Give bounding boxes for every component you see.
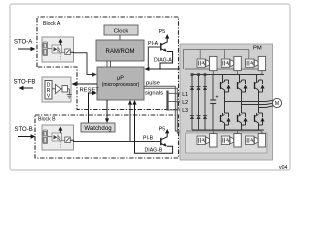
RESET wire to DRV <box>72 82 100 94</box>
input divider B <box>42 130 52 144</box>
wire stage B output <box>70 140 130 141</box>
DC bus capacitor <box>210 75 216 130</box>
motor M <box>272 98 281 107</box>
DRV buffer <box>56 85 62 94</box>
rectifier leg 2 <box>196 75 200 130</box>
PI-A wire <box>148 47 160 69</box>
IGBT upper 1 <box>221 75 231 102</box>
rail pads <box>191 73 207 76</box>
Block A boundary <box>37 17 179 110</box>
optocoupler B <box>52 133 62 141</box>
phase line W <box>259 106 273 108</box>
svg-text:Block A: Block A <box>43 21 61 27</box>
pulldown dashed B <box>59 141 61 148</box>
outer frame <box>10 4 290 170</box>
switch block B <box>62 137 71 143</box>
bottom driver sub-box <box>186 133 268 153</box>
PM block <box>180 44 273 160</box>
P5 arrow B <box>165 129 169 138</box>
mains bar <box>166 91 168 111</box>
supply arrow B <box>58 127 62 133</box>
Block B boundary <box>35 115 179 158</box>
clock box <box>104 25 138 35</box>
input stage A box <box>42 37 74 62</box>
svg-text:STO-B: STO-B <box>15 127 33 133</box>
svg-text:Clock: Clock <box>114 28 129 34</box>
rectifier leg 1 <box>190 75 194 130</box>
top driver 2 <box>221 56 241 74</box>
svg-text:DIAG-B: DIAG-B <box>145 148 163 154</box>
ram to uP bus <box>106 61 108 67</box>
L terminal marks <box>179 92 206 111</box>
svg-text:(microprocessor): (microprocessor) <box>102 82 140 88</box>
top drivers signal bus <box>184 50 249 70</box>
svg-text:L2: L2 <box>182 100 188 106</box>
transistor Q-A <box>161 42 167 52</box>
svg-text:Watchdog: Watchdog <box>84 125 111 132</box>
DIAG-B wire <box>135 103 173 153</box>
input stage B box <box>42 125 74 150</box>
rectifier leg 3 <box>203 75 207 130</box>
STO-A input arrow <box>18 47 36 51</box>
svg-text:RAM/ROM: RAM/ROM <box>106 49 135 55</box>
DIAG-A wire <box>145 52 186 72</box>
svg-text:PM: PM <box>253 46 262 52</box>
input divider A <box>42 42 52 56</box>
DRV driver rect <box>45 81 52 100</box>
RAM/ROM box <box>96 40 144 61</box>
DRV block2 <box>62 86 68 93</box>
pulse signals bus <box>144 86 182 133</box>
bottom driver 3 <box>246 131 266 147</box>
watchdog box <box>81 123 115 132</box>
svg-text:v04: v04 <box>279 165 287 171</box>
STO-FB output arrow <box>19 86 34 90</box>
svg-text:PI-B: PI-B <box>143 136 154 142</box>
svg-text:+: + <box>216 95 219 101</box>
svg-text:P5: P5 <box>159 29 165 35</box>
phase line V <box>242 103 273 104</box>
IGBT upper 2 <box>238 75 248 105</box>
top driver 3 <box>246 56 266 74</box>
uP to watchdog wire <box>105 100 109 123</box>
svg-text:STO-FB: STO-FB <box>14 80 36 86</box>
PI-B wire <box>130 103 160 142</box>
DRV cap + ground <box>52 89 72 98</box>
pulldown dashed A <box>59 53 61 60</box>
L2 line <box>168 100 199 102</box>
svg-text:P5: P5 <box>159 127 165 133</box>
svg-text:signals: signals <box>145 91 163 97</box>
svg-text:L1: L1 <box>182 92 188 98</box>
P5 arrow A <box>165 34 169 43</box>
supply arrow A <box>58 39 62 45</box>
svg-text:pulse: pulse <box>146 81 160 87</box>
IGBT lower 1 <box>221 102 231 131</box>
phase line U <box>225 100 273 101</box>
top driver 1 <box>197 56 217 74</box>
bottom driver 2 <box>221 131 241 147</box>
L3 line <box>168 109 206 111</box>
clock to ram wire <box>119 35 121 40</box>
switch block A <box>62 49 71 55</box>
DRV box <box>42 77 71 102</box>
transistor Q-B <box>161 137 167 147</box>
svg-text:µP: µP <box>117 76 124 82</box>
optocoupler A <box>52 45 62 53</box>
microprocessor box <box>97 67 144 100</box>
svg-text:STO-A: STO-A <box>14 40 32 46</box>
svg-text:L3: L3 <box>182 108 188 114</box>
svg-text:Block B: Block B <box>38 117 56 123</box>
DC top rail <box>192 74 264 76</box>
svg-text:PI-A: PI-A <box>148 41 159 47</box>
STO-B input arrow <box>18 134 36 138</box>
bottom drivers signal bus <box>186 130 262 132</box>
IGBT lower 3 <box>255 108 265 131</box>
top gate driver supply line <box>185 68 264 70</box>
DC bottom rail <box>192 129 264 131</box>
wire stage A output to uP <box>70 52 93 74</box>
watchdog to uP wire <box>89 91 97 123</box>
svg-text:M: M <box>275 101 279 107</box>
IGBT lower 2 <box>238 105 248 131</box>
L labels on PM <box>182 92 188 114</box>
L1 line <box>168 92 193 94</box>
IGBT upper 3 <box>255 75 265 108</box>
bottom driver 1 <box>197 131 217 147</box>
